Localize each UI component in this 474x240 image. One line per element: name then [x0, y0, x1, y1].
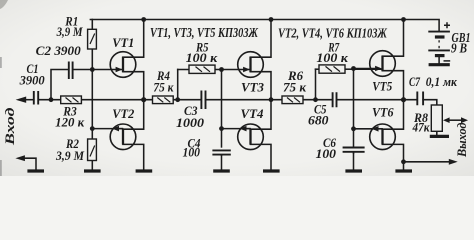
svg-text:75 к: 75 к [283, 81, 307, 95]
svg-text:680: 680 [308, 114, 329, 128]
svg-text:0,1 мк: 0,1 мк [426, 75, 458, 89]
svg-text:100: 100 [183, 146, 201, 160]
svg-text:VT2: VT2 [112, 106, 134, 121]
svg-text:3,9 М: 3,9 М [55, 149, 85, 163]
svg-text:VT2, VT4, VT6 КП103Ж: VT2, VT4, VT6 КП103Ж [278, 26, 387, 41]
svg-text:Выход: Выход [455, 123, 469, 158]
svg-text:C2 3900: C2 3900 [36, 44, 82, 58]
svg-text:100 к: 100 к [186, 51, 218, 65]
svg-text:47к: 47к [412, 121, 430, 135]
svg-text:3,9 М: 3,9 М [56, 25, 84, 39]
svg-text:VT1: VT1 [112, 35, 134, 50]
svg-text:VT3: VT3 [241, 80, 264, 95]
svg-text:VT5: VT5 [372, 79, 392, 94]
svg-text:C7: C7 [409, 75, 421, 89]
svg-text:9 В: 9 В [451, 41, 467, 56]
svg-text:1000: 1000 [176, 116, 205, 130]
svg-text:VT6: VT6 [372, 105, 394, 120]
svg-text:3900: 3900 [19, 74, 46, 88]
svg-text:100 к: 100 к [316, 51, 348, 65]
svg-text:VT1, VT3, VT5 КП303Ж: VT1, VT3, VT5 КП303Ж [150, 25, 258, 40]
svg-text:100: 100 [316, 147, 337, 161]
svg-text:VT4: VT4 [241, 106, 264, 121]
svg-text:120 к: 120 к [55, 116, 85, 130]
svg-text:75 к: 75 к [153, 81, 174, 95]
svg-text:Вход: Вход [2, 107, 17, 147]
